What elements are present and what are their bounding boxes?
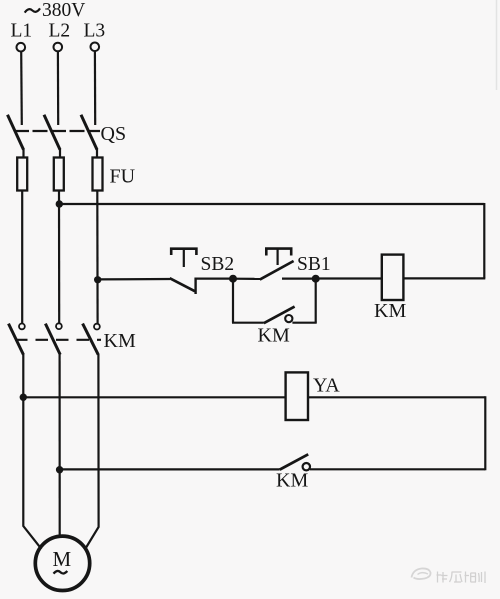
contactor coil KM [382, 255, 404, 300]
svg-text:L1: L1 [11, 21, 33, 42]
fuse FU2 [54, 158, 64, 191]
pushbutton label SB2 [201, 254, 235, 275]
fuse label FU [110, 166, 136, 188]
junction node YA branch on L1 [20, 394, 27, 401]
motor label M [53, 547, 72, 571]
svg-text:L3: L3 [84, 21, 106, 42]
pushbutton label SB1 [297, 254, 331, 275]
motor M circle [35, 536, 89, 590]
wire YA branch right vertical [484, 396, 486, 470]
switch QS linkage dashed line [14, 130, 100, 132]
svg-text:380V: 380V [42, 0, 85, 21]
watermark logo [412, 568, 431, 579]
junction node SB1 right [312, 275, 320, 283]
wire L2 terminal to QS [57, 51, 59, 125]
solenoid coil YA [286, 372, 308, 420]
switch QS pole 1 blade [8, 115, 24, 158]
terminal circle L1 [17, 43, 26, 52]
wire L3 terminal to QS [94, 51, 96, 125]
wire L1 terminal to QS [20, 51, 23, 125]
wire L1 fuse to KM contact [21, 191, 23, 325]
switch QS pole 3 blade [81, 115, 97, 158]
watermark text [437, 572, 486, 584]
contactor contact KM in YA circuit [280, 454, 486, 470]
wire L2 KM contact to motor [58, 354, 60, 536]
fuse FU3 [93, 158, 103, 191]
contactor main contact KM pole 2 [45, 323, 61, 354]
switch label QS [101, 123, 127, 145]
wire bottom branch left [60, 468, 280, 470]
contactor main contact KM pole 3 [83, 324, 100, 355]
faint scan line top right [496, 0, 498, 90]
wire L2 fuse to KM contact [58, 191, 60, 325]
motor tilde symbol [54, 571, 68, 574]
svg-text:M: M [53, 547, 72, 571]
wire KM coil to right vertical [403, 277, 485, 279]
svg-text:KM: KM [374, 300, 406, 322]
junction node control feed on L2 [56, 200, 63, 207]
pushbutton SB1 (NO start) [233, 249, 316, 280]
contactor coil label KM [374, 300, 406, 322]
svg-text:FU: FU [110, 166, 136, 188]
contactor aux contact KM (self hold) [232, 279, 317, 324]
junction node SB1 left [229, 275, 237, 283]
svg-text:SB2: SB2 [201, 254, 235, 275]
solenoid label YA [313, 375, 340, 397]
svg-text:QS: QS [101, 123, 127, 145]
contactor contact label KM [276, 470, 308, 492]
wire YA branch left [23, 396, 285, 398]
wire SB1 to KM coil [316, 277, 382, 279]
terminal label L3 [84, 21, 106, 42]
terminal circle L3 [91, 43, 100, 52]
wire SB2 to node [196, 278, 233, 280]
contactor main linkage dashed line [15, 339, 101, 341]
svg-text:L2: L2 [49, 21, 71, 42]
wire L3 junction to SB2 [98, 278, 170, 281]
terminal circle L2 [54, 43, 63, 52]
svg-text:KM: KM [104, 330, 136, 352]
contactor aux label KM [258, 325, 290, 347]
supply label ~380V [25, 0, 86, 21]
svg-text:KM: KM [276, 470, 308, 492]
junction node bottom branch on L2 [56, 466, 63, 473]
wire L1 KM contact to motor [23, 354, 41, 549]
svg-text:SB1: SB1 [297, 254, 331, 275]
contactor main contact KM pole 1 [9, 324, 25, 355]
contactor main label KM [104, 330, 136, 352]
wire L3 KM contact to motor [86, 354, 99, 548]
svg-text:KM: KM [258, 325, 290, 347]
wire control feed right vertical [483, 203, 485, 278]
terminal label L2 [49, 21, 71, 42]
fuse FU1 [17, 158, 27, 191]
wire control feed top horizontal [59, 203, 484, 205]
pushbutton SB2 (NC stop) [170, 249, 197, 294]
switch QS pole 2 blade [44, 115, 60, 158]
svg-text:YA: YA [313, 375, 340, 397]
terminal label L1 [11, 21, 33, 42]
wire YA coil to right vertical [308, 396, 485, 398]
junction node control line on L3 [94, 276, 101, 283]
wire L3 fuse to KM contact [96, 191, 98, 325]
